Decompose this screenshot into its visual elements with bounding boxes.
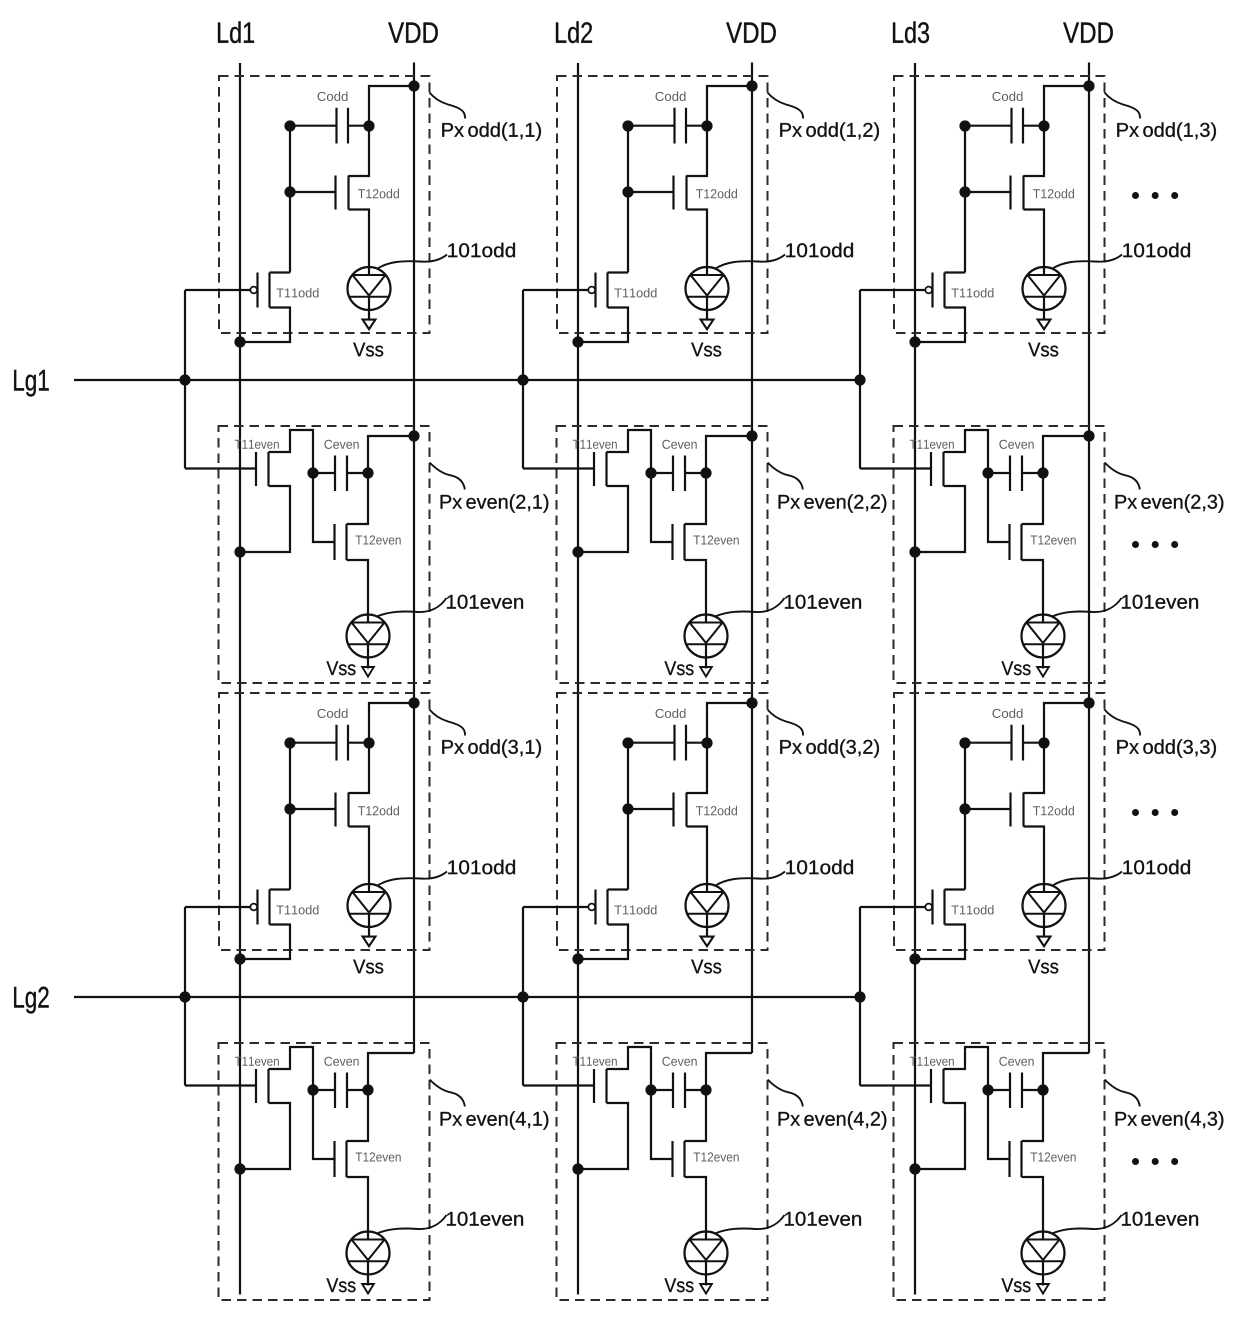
transistor T12odd of cell(3,2)	[628, 793, 737, 827]
pixel cell Px odd(3,2) dashed boundary	[557, 693, 768, 950]
junction: Ceven right plate node of cell(2,1)	[362, 467, 373, 478]
junction: Ceven left plate / storage node of cell(2,2)	[645, 467, 656, 478]
junction: Codd left plate / storage node of cell(3,2)	[622, 737, 633, 748]
wire: cell(3,2) top node from VDD to T12odd drain	[687, 703, 753, 793]
wire: gate branch column 2 rows 3-4	[522, 907, 524, 1086]
label 101odd of cell(1,3)	[1123, 243, 1190, 258]
ground Vss of cell(1,3)	[1028, 320, 1058, 357]
label Px odd(1,1)	[442, 122, 541, 140]
label 101even of cell(4,1)	[447, 1212, 523, 1226]
wire: gate branch column 1 rows 1-2	[184, 290, 186, 469]
capacitor Codd of cell(3,2)	[628, 708, 707, 760]
junction: T12odd gate on storage node of cell(1,2)	[622, 186, 633, 197]
wire: T12odd source to LED anode of cell(1,2)	[687, 210, 708, 276]
ellipsis continuation dots row 4	[1132, 1158, 1178, 1165]
wire: cell(3,3) top node from VDD to T12odd drain	[1024, 703, 1090, 793]
wire: cell(1,2) top node from VDD to T12odd drain	[687, 86, 753, 176]
leader for label 101odd of cell(1,1)	[378, 255, 448, 269]
leader for label 101even of cell(4,2)	[715, 1215, 785, 1234]
leader for label Px even(4,3)	[1105, 1080, 1140, 1107]
transistor T11odd of cell(3,1) (with gate bubble)	[240, 890, 318, 960]
junction: Ceven left plate / storage node of cell(4,3)	[982, 1084, 993, 1095]
transistor T12odd of cell(3,3)	[965, 793, 1074, 827]
junction: Codd left plate / storage node of cell(1,2)	[622, 120, 633, 131]
junction: gate branch column 3 on Lg1	[854, 374, 865, 385]
junction: cell(1,3) top node on VDD line	[1083, 80, 1094, 91]
capacitor Codd of cell(1,1)	[290, 91, 369, 143]
pixel cell Px even(4,1) dashed boundary	[219, 1043, 430, 1300]
junction: Codd left plate / storage node of cell(3,1)	[284, 737, 295, 748]
wire: T11odd gate of cell(3,1) to gate branch	[185, 906, 250, 908]
wire: storage node vertical of cell(1,2)	[627, 126, 629, 273]
net label Ld1	[218, 21, 254, 43]
wire: storage node vertical of cell(3,3)	[964, 743, 966, 890]
net label VDD column 2	[726, 23, 776, 43]
transistor T11even of cell(2,2)	[523, 430, 651, 552]
wire: storage node vertical of cell(3,1)	[289, 743, 291, 890]
wire: cell(2,1) top node to VDD	[368, 436, 414, 473]
LED 101odd of cell(1,1)	[348, 267, 391, 320]
junction: cell(3,2) top node on VDD line	[746, 697, 757, 708]
wire: T11odd gate of cell(3,3) to gate branch	[860, 906, 925, 908]
junction: cell(3,1) top node on VDD line	[408, 697, 419, 708]
transistor T11odd of cell(1,2) (with gate bubble)	[578, 273, 656, 343]
junction: gate branch column 2 on Lg1	[517, 374, 528, 385]
leader for label 101odd of cell(3,1)	[378, 872, 448, 886]
junction: Ceven left plate / storage node of cell(2,1)	[307, 467, 318, 478]
junction: cell(2,2) top node on VDD line	[746, 430, 757, 441]
wire: T12odd source to LED anode of cell(3,3)	[1024, 827, 1045, 893]
junction: gate branch column 1 on Lg2	[179, 991, 190, 1002]
junction: Codd right plate node of cell(3,3)	[1038, 737, 1049, 748]
leader for label Px odd(3,3)	[1104, 709, 1140, 735]
leader for label Px odd(1,1)	[429, 92, 465, 118]
transistor T12even of cell(4,2)	[651, 1090, 739, 1240]
wire: T12odd source to LED anode of cell(1,1)	[349, 210, 370, 276]
transistor T12odd of cell(1,2)	[628, 176, 737, 210]
ground Vss of cell(4,1)	[326, 1278, 373, 1293]
leader for label Px odd(3,1)	[429, 709, 465, 735]
ground Vss of cell(3,3)	[1028, 937, 1058, 974]
net label Ld3	[893, 21, 929, 43]
leader for label 101odd of cell(1,2)	[716, 255, 786, 269]
transistor T11even of cell(4,1)	[185, 1047, 313, 1169]
pixel cell Px even(4,3) dashed boundary	[894, 1043, 1105, 1300]
pixel cell Px odd(1,1) dashed boundary	[219, 76, 430, 333]
junction: T12odd gate on storage node of cell(3,2)	[622, 803, 633, 814]
ground Vss of cell(4,2)	[664, 1278, 711, 1293]
wire: T12odd source to LED anode of cell(3,2)	[687, 827, 708, 893]
wire: power line VDD column 3 (vertical)	[1088, 63, 1090, 1054]
junction: Codd right plate node of cell(1,2)	[701, 120, 712, 131]
label Px odd(3,1)	[442, 739, 541, 757]
label Px even(4,2)	[779, 1111, 887, 1129]
label Px even(2,1)	[441, 494, 549, 512]
LED 101even of cell(2,1)	[347, 615, 390, 669]
wire: T12odd source to LED anode of cell(3,1)	[349, 827, 370, 893]
junction: T12odd gate on storage node of cell(1,3)	[959, 186, 970, 197]
pixel cell Px even(4,2) dashed boundary	[557, 1043, 768, 1300]
junction: Ceven right plate node of cell(2,2)	[700, 467, 711, 478]
leader for label 101odd of cell(1,3)	[1053, 255, 1123, 269]
label 101odd of cell(1,1)	[448, 243, 515, 258]
wire: T11odd gate of cell(3,2) to gate branch	[523, 906, 588, 908]
junction: T11odd source on Ld2 line (cell 1,2)	[572, 336, 583, 347]
leader for label Px even(4,1)	[430, 1080, 465, 1107]
label Px odd(3,3)	[1117, 739, 1216, 757]
transistor T11even of cell(2,1)	[185, 430, 313, 552]
leader for label 101even of cell(4,3)	[1052, 1215, 1122, 1234]
junction: Ceven right plate node of cell(4,2)	[700, 1084, 711, 1095]
leader for label Px odd(1,2)	[767, 92, 803, 118]
LED 101even of cell(2,2)	[685, 615, 728, 669]
junction: T12odd gate on storage node of cell(3,3)	[959, 803, 970, 814]
junction: T11even source on Ld1 line (cell 4,1)	[234, 1163, 245, 1174]
pixel cell Px even(2,1) dashed boundary	[219, 426, 430, 683]
pixel cell Px odd(1,3) dashed boundary	[894, 76, 1105, 333]
wire: cell(4,2) top node to VDD	[706, 1053, 752, 1090]
label 101odd of cell(3,3)	[1123, 860, 1190, 875]
ground Vss of cell(2,2)	[664, 661, 711, 676]
junction: T11even source on Ld3 line (cell 2,3)	[909, 546, 920, 557]
leader for label Px even(4,2)	[768, 1080, 803, 1107]
wire: storage node vertical of cell(1,3)	[964, 126, 966, 273]
leader for label 101odd of cell(3,3)	[1053, 872, 1123, 886]
label Px even(4,3)	[1116, 1111, 1224, 1129]
leader for label 101even of cell(2,2)	[715, 598, 785, 617]
junction: cell(2,1) top node on VDD line	[408, 430, 419, 441]
transistor T12even of cell(4,1)	[313, 1090, 401, 1240]
LED 101even of cell(4,2)	[685, 1232, 728, 1286]
wire: gate branch column 3 rows 1-2	[859, 290, 861, 469]
label 101even of cell(2,1)	[447, 595, 523, 609]
LED 101odd of cell(1,2)	[686, 267, 729, 320]
junction: T12odd gate on storage node of cell(3,1)	[284, 803, 295, 814]
svg-text:Lg2: Lg2	[12, 981, 50, 1014]
wire: data line Ld1 (vertical)	[239, 63, 241, 1295]
capacitor Ceven of cell(4,1)	[313, 1057, 368, 1108]
label Px odd(3,2)	[780, 739, 879, 757]
junction: cell(2,3) top node on VDD line	[1083, 430, 1094, 441]
svg-text:Lg1: Lg1	[12, 364, 50, 397]
leader for label Px even(2,1)	[430, 463, 465, 490]
wire: cell(4,3) top node to VDD	[1043, 1053, 1089, 1090]
wire: data line Ld3 (vertical)	[914, 63, 916, 1295]
junction: Ceven left plate / storage node of cell(4,1)	[307, 1084, 318, 1095]
wire: T11odd gate of cell(1,1) to gate branch	[185, 289, 250, 291]
wire: cell(3,1) top node from VDD to T12odd drain	[349, 703, 415, 793]
wire: T11odd gate of cell(1,3) to gate branch	[860, 289, 925, 291]
wire: gate branch column 1 rows 3-4	[184, 907, 186, 1086]
LED 101even of cell(2,3)	[1022, 615, 1065, 669]
junction: gate branch column 2 on Lg2	[517, 991, 528, 1002]
wire: cell(1,1) top node from VDD to T12odd drain	[349, 86, 415, 176]
transistor T12even of cell(2,1)	[313, 473, 401, 623]
label 101odd of cell(3,1)	[448, 860, 515, 875]
wire: storage node vertical of cell(3,2)	[627, 743, 629, 890]
capacitor Codd of cell(3,3)	[965, 708, 1044, 760]
transistor T12even of cell(4,3)	[988, 1090, 1076, 1240]
transistor T12even of cell(2,3)	[988, 473, 1076, 623]
transistor T11even of cell(2,3)	[860, 430, 988, 552]
transistor T12odd of cell(1,1)	[290, 176, 399, 210]
junction: Ceven left plate / storage node of cell(2,3)	[982, 467, 993, 478]
ground Vss of cell(2,3)	[1001, 661, 1048, 676]
ground Vss of cell(4,3)	[1001, 1278, 1048, 1293]
ground Vss of cell(2,1)	[326, 661, 373, 676]
capacitor Ceven of cell(4,2)	[651, 1057, 706, 1108]
junction: gate branch column 3 on Lg2	[854, 991, 865, 1002]
junction: Codd right plate node of cell(3,2)	[701, 737, 712, 748]
leader for label 101odd of cell(3,2)	[716, 872, 786, 886]
junction: T11even source on Ld3 line (cell 4,3)	[909, 1163, 920, 1174]
leader for label 101even of cell(4,1)	[377, 1215, 447, 1234]
transistor T11odd of cell(3,2) (with gate bubble)	[578, 890, 656, 960]
pixel cell Px odd(1,2) dashed boundary	[557, 76, 768, 333]
capacitor Ceven of cell(2,3)	[988, 440, 1043, 491]
wire: cell(2,3) top node to VDD	[1043, 436, 1089, 473]
pixel cell Px even(2,3) dashed boundary	[894, 426, 1105, 683]
LED 101odd of cell(3,1)	[348, 884, 391, 937]
label 101odd of cell(1,2)	[786, 243, 853, 258]
junction: T11even source on Ld2 line (cell 4,2)	[572, 1163, 583, 1174]
junction: Ceven right plate node of cell(4,1)	[362, 1084, 373, 1095]
junction: Codd right plate node of cell(1,1)	[363, 120, 374, 131]
junction: T11odd source on Ld3 line (cell 3,3)	[909, 953, 920, 964]
wire: T12odd source to LED anode of cell(1,3)	[1024, 210, 1045, 276]
wire: gate line Lg2 (horizontal)	[74, 996, 860, 998]
capacitor Ceven of cell(4,3)	[988, 1057, 1043, 1108]
capacitor Ceven of cell(2,1)	[313, 440, 368, 491]
LED 101even of cell(4,1)	[347, 1232, 390, 1286]
junction: cell(1,1) top node on VDD line	[408, 80, 419, 91]
ellipsis continuation dots row 2	[1132, 541, 1178, 548]
label Px even(4,1)	[441, 1111, 549, 1129]
wire: cell(2,2) top node to VDD	[706, 436, 752, 473]
capacitor Codd of cell(1,3)	[965, 91, 1044, 143]
pixel cell Px odd(3,1) dashed boundary	[219, 693, 430, 950]
transistor T11odd of cell(1,1) (with gate bubble)	[240, 273, 318, 343]
ground Vss of cell(3,1)	[353, 937, 383, 974]
junction: cell(1,2) top node on VDD line	[746, 80, 757, 91]
wire: gate line Lg1 (horizontal)	[74, 379, 860, 381]
transistor T11even of cell(4,3)	[860, 1047, 988, 1169]
capacitor Codd of cell(1,2)	[628, 91, 707, 143]
wire: data line Ld2 (vertical)	[577, 63, 579, 1295]
ellipsis continuation dots row 3	[1132, 809, 1178, 816]
label Px odd(1,3)	[1117, 122, 1216, 140]
junction: Ceven left plate / storage node of cell(4,2)	[645, 1084, 656, 1095]
junction: T11odd source on Ld1 line (cell 3,1)	[234, 953, 245, 964]
junction: T12odd gate on storage node of cell(1,1)	[284, 186, 295, 197]
net label VDD column 3	[1063, 23, 1113, 43]
LED 101odd of cell(3,3)	[1023, 884, 1066, 937]
junction: Codd left plate / storage node of cell(3,3)	[959, 737, 970, 748]
ground Vss of cell(1,2)	[691, 320, 721, 357]
label 101even of cell(2,2)	[785, 595, 861, 609]
transistor T12odd of cell(3,1)	[290, 793, 399, 827]
junction: T11even source on Ld2 line (cell 2,2)	[572, 546, 583, 557]
junction: T11even source on Ld1 line (cell 2,1)	[234, 546, 245, 557]
wire: gate branch column 3 rows 3-4	[859, 907, 861, 1086]
label 101odd of cell(3,2)	[786, 860, 853, 875]
leader for label Px even(2,3)	[1105, 463, 1140, 490]
junction: T11odd source on Ld1 line (cell 1,1)	[234, 336, 245, 347]
transistor T11even of cell(4,2)	[523, 1047, 651, 1169]
wire: cell(1,3) top node from VDD to T12odd drain	[1024, 86, 1090, 176]
transistor T11odd of cell(1,3) (with gate bubble)	[915, 273, 993, 343]
junction: gate branch column 1 on Lg1	[179, 374, 190, 385]
capacitor Codd of cell(3,1)	[290, 708, 369, 760]
ground Vss of cell(1,1)	[353, 320, 383, 357]
label Px even(2,3)	[1116, 494, 1224, 512]
wire: T11odd gate of cell(1,2) to gate branch	[523, 289, 588, 291]
LED 101odd of cell(3,2)	[686, 884, 729, 937]
transistor T12even of cell(2,2)	[651, 473, 739, 623]
leader for label Px odd(3,2)	[767, 709, 803, 735]
junction: Ceven right plate node of cell(2,3)	[1037, 467, 1048, 478]
junction: Codd right plate node of cell(1,3)	[1038, 120, 1049, 131]
wire: cell(4,1) top node to VDD	[368, 1053, 414, 1090]
LED 101even of cell(4,3)	[1022, 1232, 1065, 1286]
junction: Codd right plate node of cell(3,1)	[363, 737, 374, 748]
junction: Codd left plate / storage node of cell(1,1)	[284, 120, 295, 131]
label 101even of cell(2,3)	[1122, 595, 1198, 609]
label Px even(2,2)	[779, 494, 887, 512]
wire: power line VDD column 2 (vertical)	[751, 63, 753, 1054]
net label Ld2	[556, 21, 592, 43]
wire: power line VDD column 1 (vertical)	[413, 63, 415, 1054]
transistor T12odd of cell(1,3)	[965, 176, 1074, 210]
junction: cell(3,3) top node on VDD line	[1083, 697, 1094, 708]
wire: storage node vertical of cell(1,1)	[289, 126, 291, 273]
transistor T11odd of cell(3,3) (with gate bubble)	[915, 890, 993, 960]
capacitor Ceven of cell(2,2)	[651, 440, 706, 491]
wire: gate branch column 2 rows 1-2	[522, 290, 524, 469]
pixel cell Px even(2,2) dashed boundary	[557, 426, 768, 683]
leader for label 101even of cell(2,1)	[377, 598, 447, 617]
ground Vss of cell(3,2)	[691, 937, 721, 974]
junction: Ceven right plate node of cell(4,3)	[1037, 1084, 1048, 1095]
ellipsis continuation dots row 1	[1132, 192, 1178, 199]
leader for label Px even(2,2)	[768, 463, 803, 490]
leader for label 101even of cell(2,3)	[1052, 598, 1122, 617]
label 101even of cell(4,2)	[785, 1212, 861, 1226]
junction: T11odd source on Ld2 line (cell 3,2)	[572, 953, 583, 964]
junction: T11odd source on Ld3 line (cell 1,3)	[909, 336, 920, 347]
pixel cell Px odd(3,3) dashed boundary	[894, 693, 1105, 950]
net label VDD column 1	[388, 23, 438, 43]
leader for label Px odd(1,3)	[1104, 92, 1140, 118]
LED 101odd of cell(1,3)	[1023, 267, 1066, 320]
junction: Codd left plate / storage node of cell(1,3)	[959, 120, 970, 131]
label 101even of cell(4,3)	[1122, 1212, 1198, 1226]
label Px odd(1,2)	[780, 122, 879, 140]
